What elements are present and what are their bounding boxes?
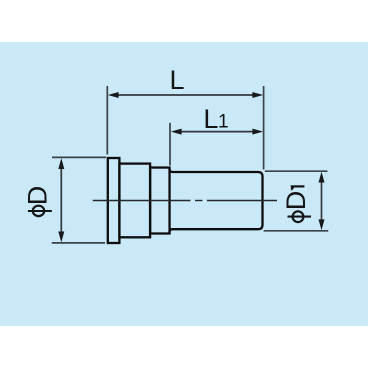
- phiD1 bottom arrow: [319, 219, 325, 230]
- label phiD1 (rotated): subscript 1 drawn manually (stem + flag): [291, 185, 305, 190]
- plug body: third section: [150, 168, 169, 234]
- plug body: tube section with rounded right end: [170, 169, 263, 232]
- phiD1 top arrow: [319, 172, 325, 183]
- svg-text:D: D: [281, 191, 311, 211]
- phiD dimension line: [60, 162, 62, 239]
- L left arrow: [108, 92, 119, 98]
- blue drawing background panel: [0, 42, 368, 326]
- label phiD1 (rotated): phi symbol drawn as ellipse + bar: [288, 211, 312, 222]
- svg-text:L: L: [203, 104, 218, 134]
- plug body: flange section: [108, 158, 263, 243]
- L1 left arrow: [171, 129, 182, 135]
- L1 right arrow: [252, 129, 263, 135]
- L left extension line: [106, 86, 108, 155]
- phiD top extension line: [52, 156, 106, 158]
- phiD1 bottom extension line: [264, 230, 329, 232]
- svg-text:L: L: [170, 65, 185, 95]
- dimension extension lines: [52, 86, 329, 243]
- L dimension line: [61, 95, 321, 239]
- phiD1 top extension line: [265, 170, 328, 172]
- phiD bottom arrow: [58, 232, 64, 243]
- centerline (dash-dot): [93, 200, 277, 202]
- L1 left extension line: [169, 123, 171, 166]
- phiD1 dimension line: [321, 175, 323, 227]
- arrowheads: [58, 92, 324, 242]
- L/L1 right extension line: [263, 86, 265, 169]
- svg-text:D: D: [23, 186, 53, 206]
- label phiD (rotated): phi symbol drawn as ellipse + bar: [28, 206, 52, 216]
- L right arrow: [252, 92, 263, 98]
- L1 dimension line: [174, 131, 259, 133]
- plug body: second section: [119, 164, 150, 238]
- phiD bottom extension line: [52, 242, 105, 244]
- phiD top arrow: [58, 158, 64, 169]
- svg-text:1: 1: [218, 112, 229, 133]
